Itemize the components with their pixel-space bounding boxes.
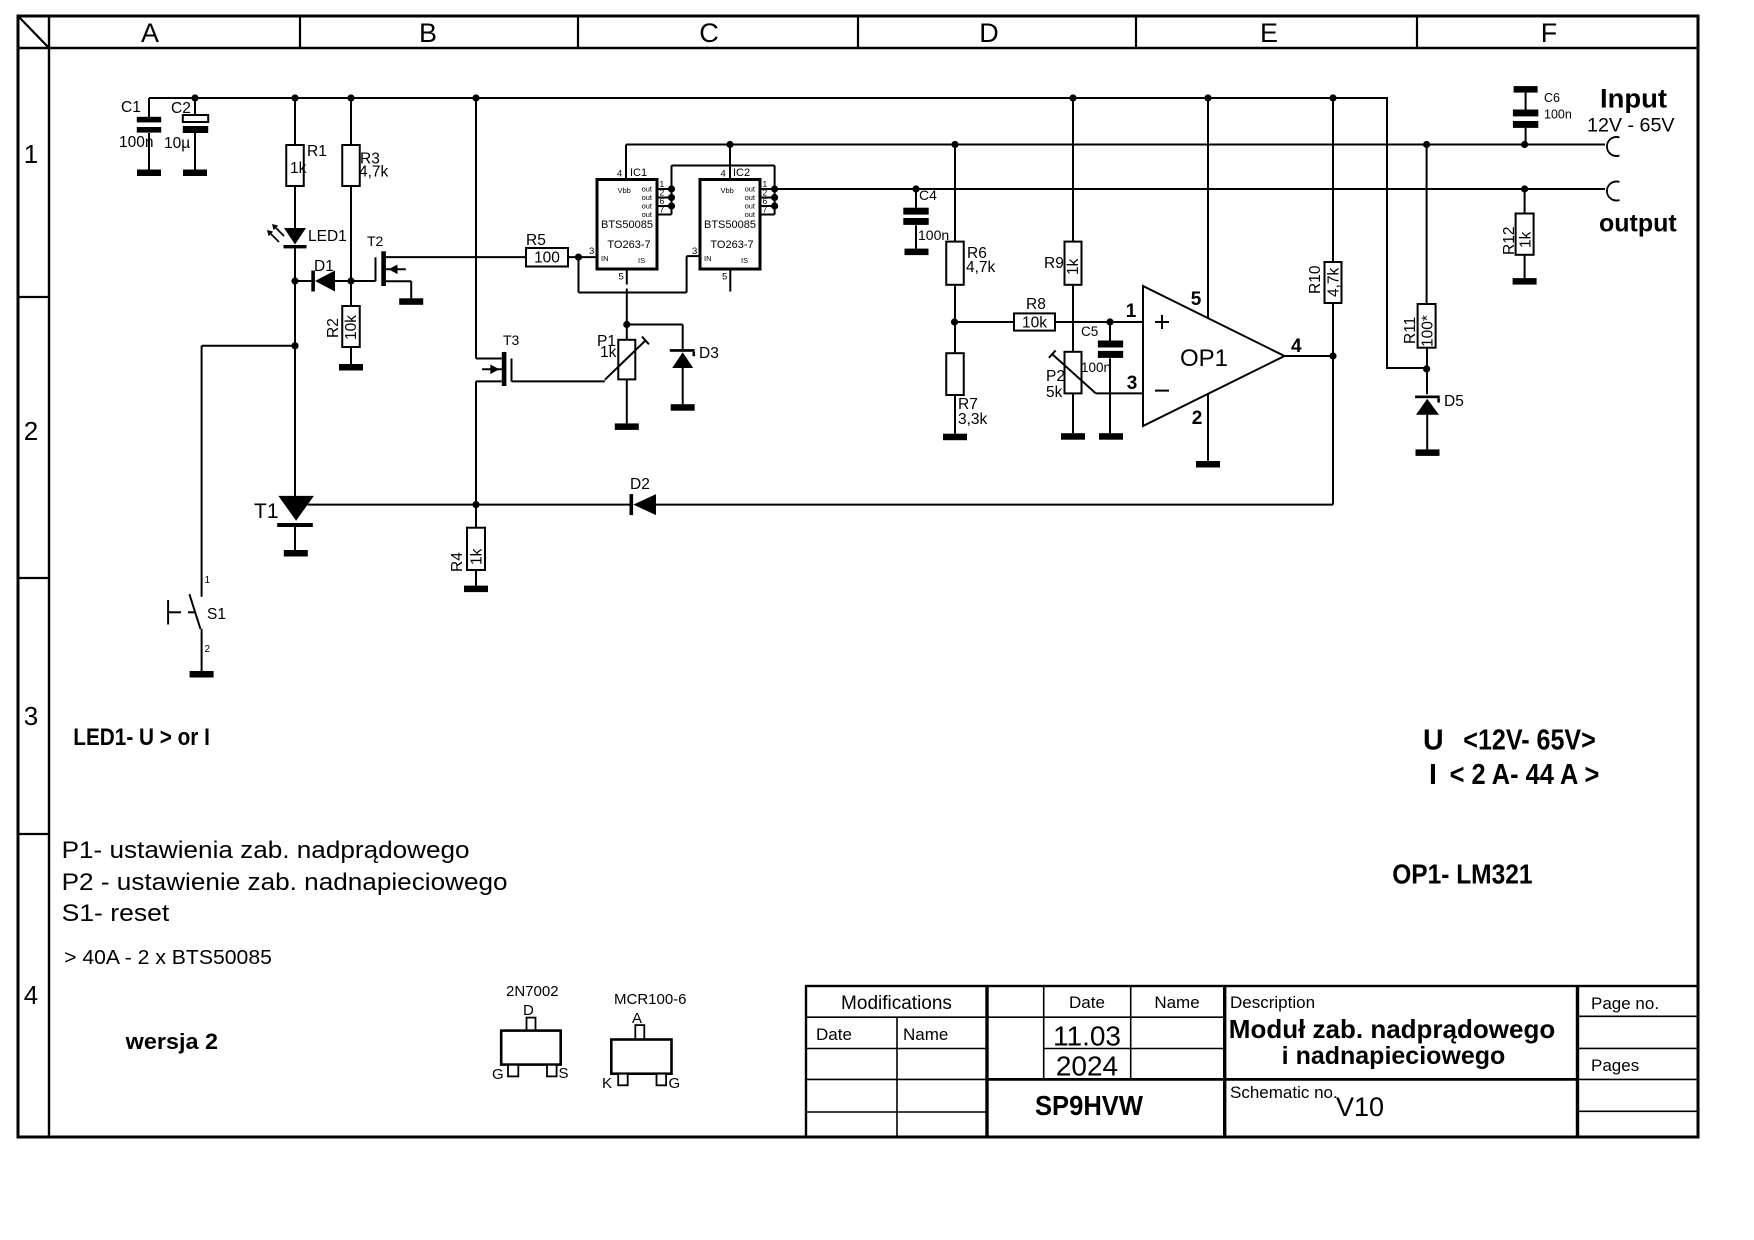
OP1 pin 4 label <box>1291 336 1302 357</box>
svg-text:OP1: OP1 <box>1180 345 1228 372</box>
switch S1 <box>168 346 295 671</box>
value C5 100n <box>1081 360 1111 375</box>
ground below R2 <box>339 364 363 371</box>
svg-text:P2: P2 <box>1046 368 1065 385</box>
value R4 1k <box>469 548 486 565</box>
IC2 pin 3 label <box>692 246 697 257</box>
IC1 pin 3 label <box>589 246 594 257</box>
svg-text:C1: C1 <box>121 99 141 116</box>
value R12 1k <box>1518 231 1535 248</box>
OP1 pin 1 label <box>1126 301 1137 322</box>
svg-text:G: G <box>492 1066 504 1083</box>
ground below C5 <box>1099 433 1123 440</box>
text BTS50085 TO263-7 labels <box>601 219 756 251</box>
svg-text:1k: 1k <box>600 344 617 361</box>
text P1/P2/S1 captions <box>62 837 508 927</box>
svg-text:E: E <box>1260 18 1278 48</box>
resistor R3 <box>342 145 360 186</box>
svg-text:3: 3 <box>589 246 594 257</box>
label R4 <box>449 552 466 572</box>
label R1 <box>307 143 327 160</box>
label R8 <box>1026 296 1046 313</box>
wire top supply rail <box>149 97 1387 99</box>
svg-text:Vbb: Vbb <box>721 186 734 195</box>
potentiometer P2 <box>1049 350 1096 433</box>
OP1 pin 1 (+) wire <box>1110 321 1143 323</box>
svg-text:R1: R1 <box>307 143 327 160</box>
node R6/R7/R8 junction <box>951 318 958 325</box>
label C6 <box>1544 91 1560 105</box>
label C5 <box>1081 324 1098 339</box>
resistor R12 <box>1516 189 1534 278</box>
svg-text:R5: R5 <box>526 232 546 249</box>
svg-text:LED1: LED1 <box>308 228 347 245</box>
ground below OP1 pin 2 <box>1196 461 1220 468</box>
capacitor C2 <box>183 98 208 170</box>
svg-text:R12: R12 <box>1501 227 1518 255</box>
node junctions on output rail <box>912 185 1528 192</box>
potentiometer P1 <box>605 325 649 424</box>
capacitor C1 <box>137 98 161 170</box>
svg-text:IC1: IC1 <box>630 167 647 179</box>
op-amp OP1 <box>1143 286 1285 426</box>
zener diode D3 <box>670 349 695 404</box>
svg-text:A: A <box>141 18 159 48</box>
label R7 <box>958 396 978 413</box>
value C4 100n <box>918 227 949 243</box>
ground below T2 source <box>399 298 423 305</box>
IC2 output pins 1 2 6 7 <box>760 166 778 215</box>
label T1 <box>254 500 279 523</box>
diode D1 <box>295 271 351 292</box>
label P2 <box>1046 368 1065 385</box>
svg-text:2: 2 <box>205 644 211 655</box>
node OP1 output / R10 junction <box>1329 352 1336 359</box>
svg-text:100n: 100n <box>1081 360 1111 375</box>
node R8 / C5 / OP1 pin1 junction <box>1106 318 1113 325</box>
S1 pin 2 label <box>205 644 211 655</box>
svg-text:S: S <box>559 1065 569 1082</box>
label R5 <box>526 232 546 249</box>
resistor R8 <box>955 313 1143 330</box>
ground below P2 <box>1061 433 1085 440</box>
value R3 4,7k <box>359 164 389 181</box>
label T2 <box>367 233 384 249</box>
svg-text:2: 2 <box>1192 408 1203 429</box>
svg-text:Moduł zab. nadprądowego: Moduł zab. nadprądowego <box>1229 1014 1555 1044</box>
svg-text:Input: Input <box>1600 84 1667 114</box>
resistor R1 <box>286 145 304 186</box>
svg-text:U: U <box>1423 725 1444 757</box>
ground below T1 <box>284 550 308 557</box>
wire T1 gate to node <box>308 504 476 506</box>
S1 pin 1 label <box>205 575 211 586</box>
capacitor C5 <box>1098 322 1123 433</box>
svg-text:Pages: Pages <box>1591 1056 1639 1075</box>
svg-text:7: 7 <box>763 205 768 215</box>
svg-text:4: 4 <box>721 169 726 180</box>
text Input 12V - 65V <box>1587 84 1675 137</box>
svg-text:F: F <box>1541 18 1558 48</box>
resistor R5 <box>526 248 568 267</box>
svg-text:C4: C4 <box>919 187 937 203</box>
svg-text:IN: IN <box>704 254 712 263</box>
value R9 1k <box>1065 258 1082 275</box>
value R10 4,7k <box>1326 267 1343 297</box>
svg-text:3,3k: 3,3k <box>958 411 988 428</box>
svg-text:V10: V10 <box>1336 1092 1384 1122</box>
label R2 <box>325 318 342 338</box>
wire output rail <box>775 188 1605 190</box>
svg-text:1: 1 <box>24 139 38 169</box>
svg-text:1: 1 <box>205 575 211 586</box>
svg-text:100n: 100n <box>918 227 949 243</box>
OP1 pin 5 lead <box>1207 98 1209 318</box>
node T3 source / T1 gate / D2 / R4 junction <box>472 501 479 508</box>
label D2 <box>630 476 650 493</box>
wire node to R2 <box>350 281 352 306</box>
wire D1 node to T2 gate <box>351 280 376 282</box>
node junctions on top rail <box>191 94 1336 101</box>
wire R5 to IC1 IN with junction <box>568 254 597 261</box>
label P1 <box>597 333 616 350</box>
resistor R4 <box>467 505 485 586</box>
svg-text:R11: R11 <box>1402 317 1419 344</box>
label R6 <box>967 245 987 262</box>
label R12 <box>1501 227 1518 255</box>
text OP1- LM321 <box>1392 859 1532 890</box>
svg-text:2024: 2024 <box>1056 1051 1118 1082</box>
svg-text:100n: 100n <box>1544 108 1572 122</box>
text output <box>1599 210 1677 238</box>
svg-text:100: 100 <box>534 250 560 267</box>
svg-text:Date: Date <box>1069 993 1105 1012</box>
value R7 3,3k <box>958 411 988 428</box>
wire IC1 out bus to IC2 out bus <box>672 165 775 167</box>
wire down to T1 anode <box>294 346 296 496</box>
svg-text:S1: S1 <box>207 606 226 623</box>
LED LED1 <box>267 224 307 281</box>
label D5 <box>1444 393 1464 410</box>
wire LED column down / S1 tap <box>291 281 298 349</box>
label R10 <box>1307 265 1324 294</box>
IC U IC2 BTS50085 <box>700 167 760 269</box>
value C6 100n <box>1544 108 1572 122</box>
text wersja 2 <box>125 1029 218 1054</box>
value R5 100 <box>534 250 560 267</box>
svg-text:Schematic no.: Schematic no. <box>1230 1083 1338 1102</box>
value R8 10k <box>1022 315 1047 332</box>
IC2 pin 4 lead <box>729 145 731 180</box>
svg-text:1: 1 <box>1126 301 1137 322</box>
value C2 10u <box>164 135 190 152</box>
wire R5 node to IC2 IN <box>579 256 701 292</box>
OP1 pin 3 label <box>1127 373 1138 394</box>
svg-text:<12V- 65V>: <12V- 65V> <box>1463 725 1596 757</box>
value C1 100n <box>119 134 153 151</box>
wire top rail to R1 <box>294 98 296 145</box>
diode D2 <box>476 494 1333 515</box>
svg-text:2N7002: 2N7002 <box>506 983 559 1000</box>
svg-text:K: K <box>602 1075 612 1092</box>
svg-text:10µ: 10µ <box>164 135 190 152</box>
wire top rail to R3 <box>350 98 352 145</box>
svg-text:R9: R9 <box>1044 255 1064 272</box>
ground below C1 <box>137 170 161 177</box>
package drawing MCR100-6 <box>602 991 687 1092</box>
svg-text:1k: 1k <box>1065 258 1082 275</box>
svg-text:Page no.: Page no. <box>1591 994 1659 1013</box>
svg-text:R4: R4 <box>449 552 466 572</box>
resistor R2 <box>342 306 360 347</box>
svg-text:D: D <box>523 1002 534 1019</box>
svg-text:P1- ustawienia zab. nadprądowe: P1- ustawienia zab. nadprądowego <box>62 837 470 864</box>
value P1 1k <box>600 344 617 361</box>
ground below R7 <box>943 434 967 441</box>
label C1 <box>121 99 141 116</box>
svg-text:< 2 A- 44 A >: < 2 A- 44 A > <box>1450 759 1600 791</box>
text LED1- U > or I <box>73 724 210 751</box>
wire IS node to D3 <box>627 325 683 350</box>
OP1 pin 5 label <box>1191 289 1202 310</box>
svg-text:BTS50085: BTS50085 <box>704 219 756 231</box>
title block <box>806 986 1698 1137</box>
value R11 100* <box>1420 315 1437 347</box>
svg-text:2: 2 <box>24 416 38 446</box>
svg-text:wersja 2: wersja 2 <box>125 1029 218 1054</box>
svg-text:Date: Date <box>816 1025 852 1044</box>
svg-text:10k: 10k <box>1022 315 1047 332</box>
text I range <box>1429 759 1599 791</box>
ground below S1 <box>190 671 214 678</box>
svg-text:IN: IN <box>601 254 609 263</box>
svg-text:LED1- U > or I: LED1- U > or I <box>73 724 210 751</box>
svg-text:7: 7 <box>660 205 665 215</box>
OP1 pin 2 lead <box>1207 394 1209 461</box>
capacitor C4 <box>903 189 928 249</box>
svg-text:R8: R8 <box>1026 296 1046 313</box>
svg-text:D1: D1 <box>314 258 334 275</box>
IC U IC1 BTS50085 <box>597 167 657 269</box>
svg-text:output: output <box>1599 210 1677 238</box>
svg-text:11.03: 11.03 <box>1053 1021 1121 1052</box>
svg-text:4,7k: 4,7k <box>359 164 389 181</box>
svg-text:T3: T3 <box>503 332 520 348</box>
label S1 <box>207 606 226 623</box>
svg-text:C6: C6 <box>1544 91 1560 105</box>
svg-text:100n: 100n <box>119 134 153 151</box>
svg-text:12V - 65V: 12V - 65V <box>1587 115 1675 137</box>
wire T3 gate to P1 wiper <box>512 380 605 382</box>
package drawing 2N7002 <box>492 983 569 1083</box>
svg-text:> 40A - 2 x BTS50085: > 40A - 2 x BTS50085 <box>64 947 272 969</box>
svg-text:D5: D5 <box>1444 393 1464 410</box>
svg-text:3: 3 <box>1127 373 1138 394</box>
svg-text:BTS50085: BTS50085 <box>601 219 653 231</box>
svg-text:5: 5 <box>1191 289 1202 310</box>
svg-text:5: 5 <box>722 272 727 283</box>
svg-text:C5: C5 <box>1081 324 1098 339</box>
svg-text:T2: T2 <box>367 233 384 249</box>
svg-text:D: D <box>979 18 999 48</box>
IC1 output pins 1 2 6 7 <box>657 166 675 215</box>
svg-text:Name: Name <box>1154 993 1199 1012</box>
IC1 pin 5 label <box>619 272 624 283</box>
wire R3 to D1/R2/T2 node <box>347 186 354 285</box>
svg-text:5k: 5k <box>1046 384 1063 401</box>
svg-text:I: I <box>1429 759 1437 791</box>
svg-text:IC2: IC2 <box>733 167 750 179</box>
svg-text:4,7k: 4,7k <box>966 259 996 276</box>
ground below C2 <box>183 170 207 177</box>
label C4 <box>919 187 937 203</box>
input terminal <box>1607 137 1620 156</box>
svg-text:D2: D2 <box>630 476 650 493</box>
svg-text:3: 3 <box>692 246 697 257</box>
svg-text:out: out <box>642 210 653 219</box>
svg-text:4: 4 <box>24 980 38 1010</box>
svg-text:1k: 1k <box>1518 231 1535 248</box>
wire Vbb input rail <box>626 144 1605 146</box>
IC1 IS lead to P1 node <box>626 269 628 325</box>
svg-text:P2 - ustawienie zab. nadnapiec: P2 - ustawienie zab. nadnapieciowego <box>62 869 508 896</box>
wire R2 to ground <box>350 347 352 364</box>
svg-text:Modifications: Modifications <box>841 993 952 1014</box>
svg-text:out: out <box>745 210 756 219</box>
svg-text:S1- reset: S1- reset <box>62 900 170 927</box>
IC2 pin 5 label <box>722 272 727 283</box>
value R1 1k <box>290 160 307 177</box>
value R2 10k <box>343 315 360 340</box>
ground below P1 <box>615 423 639 430</box>
node R11 / D5 / top-rail junction <box>1423 365 1430 372</box>
ground below C4 <box>905 249 929 256</box>
text 40A note <box>64 947 272 969</box>
resistor R10 <box>1325 98 1342 505</box>
svg-text:R2: R2 <box>325 318 342 338</box>
svg-text:TO263-7: TO263-7 <box>607 239 650 251</box>
wire P2 wiper to OP1 pin 3 <box>1096 392 1143 394</box>
label R11 <box>1402 317 1419 344</box>
resistor R7 <box>946 353 964 434</box>
svg-text:C2: C2 <box>171 100 191 117</box>
label D3 <box>699 345 719 362</box>
node junctions on Vbb rail <box>726 141 1528 148</box>
svg-text:G: G <box>669 1075 681 1092</box>
svg-text:100*: 100* <box>1420 315 1437 347</box>
node IC1 IS junction <box>623 321 630 328</box>
label C2 <box>171 100 191 117</box>
svg-text:Vbb: Vbb <box>618 186 631 195</box>
value P2 5k <box>1046 384 1063 401</box>
svg-text:B: B <box>419 18 437 48</box>
ground below D3 <box>671 404 695 411</box>
svg-text:TO263-7: TO263-7 <box>710 239 753 251</box>
label R3 <box>360 151 380 168</box>
label LED1 <box>308 228 347 245</box>
wire top-rail drop to R11/D5 node <box>1386 97 1427 368</box>
label R9 <box>1044 255 1064 272</box>
capacitor C6 <box>1513 93 1538 145</box>
svg-text:MCR100-6: MCR100-6 <box>614 991 687 1008</box>
svg-text:IS: IS <box>741 256 748 265</box>
resistor R6 <box>946 145 964 354</box>
IC2 IS lead (open) <box>729 269 731 292</box>
svg-text:IS: IS <box>638 256 645 265</box>
svg-text:T1: T1 <box>254 500 279 523</box>
svg-text:4: 4 <box>1291 336 1302 357</box>
svg-text:R10: R10 <box>1307 265 1324 294</box>
svg-text:Name: Name <box>903 1025 948 1044</box>
svg-text:Description: Description <box>1230 993 1315 1012</box>
ground below R4 <box>464 586 488 593</box>
value R6 4,7k <box>966 259 996 276</box>
transistor T2 <box>376 251 527 298</box>
svg-text:4: 4 <box>617 169 622 180</box>
output terminal <box>1607 181 1620 200</box>
svg-text:SP9HVW: SP9HVW <box>1035 1090 1143 1121</box>
ground below R12 <box>1513 278 1537 285</box>
thyristor T1 <box>277 496 314 550</box>
resistor R9 <box>1065 98 1082 352</box>
IC1 pin 4 lead <box>625 145 627 180</box>
zener diode D5 <box>1415 396 1440 450</box>
text U range <box>1423 725 1596 757</box>
transistor T3 <box>476 98 512 505</box>
label D1 <box>314 258 334 275</box>
svg-text:1k: 1k <box>290 160 307 177</box>
node R1/LED1/D1 junction <box>291 277 298 284</box>
resistor R11 <box>1418 145 1436 395</box>
wire R1 to LED1 <box>294 186 296 228</box>
svg-text:3: 3 <box>24 701 38 731</box>
svg-text:1k: 1k <box>469 548 486 565</box>
svg-text:4,7k: 4,7k <box>1326 267 1343 297</box>
svg-text:i nadnapieciowego: i nadnapieciowego <box>1282 1042 1506 1070</box>
svg-text:C: C <box>699 18 719 48</box>
svg-text:10k: 10k <box>343 315 360 340</box>
svg-text:OP1- LM321: OP1- LM321 <box>1392 859 1532 890</box>
label T3 <box>503 332 520 348</box>
svg-text:D3: D3 <box>699 345 719 362</box>
OP1 pin 4 output wire <box>1285 355 1334 357</box>
svg-text:5: 5 <box>619 272 624 283</box>
OP1 pin 2 label <box>1192 408 1203 429</box>
ground below D5 <box>1416 449 1440 456</box>
ground above C6 <box>1514 86 1538 93</box>
